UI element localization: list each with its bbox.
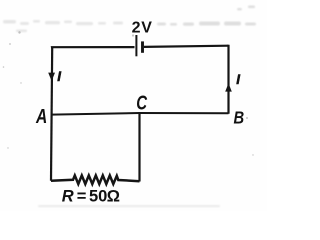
wire middle horizontal A-B: [51, 113, 228, 115]
svg-text:=: =: [77, 188, 87, 206]
svg-text:A: A: [35, 105, 47, 127]
battery cell left long plate: [135, 35, 137, 56]
svg-text:B: B: [234, 108, 245, 128]
current arrow up (right branch): [225, 83, 232, 91]
svg-text:R: R: [62, 188, 74, 206]
svg-text:I: I: [236, 72, 240, 87]
scan noise: top smudge band left: [3, 20, 123, 32]
scan noise: bottom streak: [38, 205, 220, 207]
wire bottom with resistor R zigzag: [51, 175, 140, 184]
svg-text:I: I: [57, 69, 61, 84]
svg-text:C: C: [136, 91, 147, 114]
page background: [0, 0, 267, 211]
wire top-right segment: [144, 46, 229, 47]
svg-text:V: V: [141, 20, 152, 37]
svg-text:2: 2: [132, 20, 141, 37]
wire right vertical: [227, 45, 229, 114]
svg-text:50: 50: [89, 188, 107, 206]
scan noise: top smudge band right: [157, 6, 256, 26]
battery cell right short plate: [141, 41, 144, 52]
wire left vertical: [51, 48, 52, 181]
wire top-left segment: [52, 47, 135, 48]
current arrow down (left branch): [48, 73, 55, 81]
scan noise: scattered specks: [3, 31, 254, 155]
wire loop right vertical C down: [138, 113, 140, 181]
svg-text:Ω: Ω: [107, 188, 120, 206]
